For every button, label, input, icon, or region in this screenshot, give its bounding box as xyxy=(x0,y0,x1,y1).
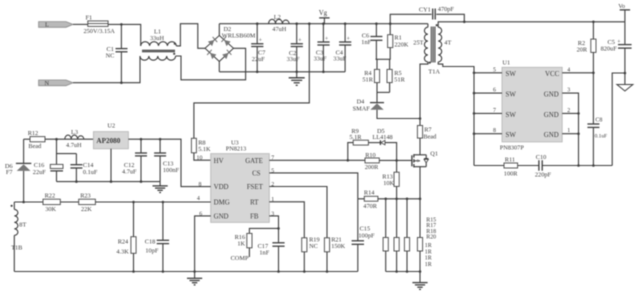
wire T1A secondary bottom to SW bus xyxy=(438,62,474,166)
svg-text:2: 2 xyxy=(567,108,570,114)
capacitor C15 xyxy=(352,199,375,272)
resistor R5 xyxy=(387,59,406,92)
wire Vg rail xyxy=(219,23,428,25)
svg-text:1K: 1K xyxy=(237,240,245,247)
svg-text:Bead: Bead xyxy=(423,133,437,140)
wire U2 bottom lead xyxy=(110,149,112,182)
svg-text:GND: GND xyxy=(544,92,559,99)
svg-text:5: 5 xyxy=(271,168,274,174)
svg-text:SW: SW xyxy=(506,132,517,139)
wire SW pin 6 xyxy=(474,92,502,94)
svg-text:FB: FB xyxy=(250,214,259,221)
wire R8 to HV pin xyxy=(194,153,211,160)
svg-text:250V/3.15A: 250V/3.15A xyxy=(84,28,116,35)
resistor R14 xyxy=(363,190,378,210)
wire main bottom rail xyxy=(14,271,358,273)
ground symbol (U3 GND) xyxy=(187,272,202,285)
svg-text:R14: R14 xyxy=(364,190,375,197)
capacitor C1 xyxy=(106,24,128,82)
transistor Q1 xyxy=(412,150,438,167)
wire SW pin 5 xyxy=(474,72,502,74)
node COMP xyxy=(231,248,250,262)
svg-text:F1: F1 xyxy=(86,15,93,22)
svg-text:1R: 1R xyxy=(425,249,432,255)
svg-text:COMP: COMP xyxy=(231,255,249,262)
resistor R22 xyxy=(43,193,60,214)
svg-text:8: 8 xyxy=(493,128,496,134)
wire Q1 source down to sense row xyxy=(419,167,421,199)
svg-text:SW: SW xyxy=(506,71,517,78)
wire R7 to Q1 drain xyxy=(419,138,421,155)
svg-text:C18: C18 xyxy=(145,238,156,245)
svg-text:4.3K: 4.3K xyxy=(116,249,129,256)
svg-text:820uF: 820uF xyxy=(601,46,618,53)
svg-text:1: 1 xyxy=(567,128,570,134)
wire SW pin 8 xyxy=(474,133,502,135)
svg-text:R10: R10 xyxy=(365,152,376,159)
svg-text:Bead: Bead xyxy=(28,143,42,150)
svg-text:L3: L3 xyxy=(71,129,78,136)
svg-text:C10: C10 xyxy=(536,154,547,161)
svg-text:RT: RT xyxy=(250,199,259,206)
wire F1 to L1 top xyxy=(108,24,141,46)
wire L1 bottom to bridge right (AC2) xyxy=(176,48,246,80)
svg-text:T1A: T1A xyxy=(428,68,440,75)
wire CS net xyxy=(269,173,358,199)
op-amp U1 PN8307P xyxy=(500,60,563,152)
diode D5 LL4148 xyxy=(372,128,392,145)
svg-text:10pF: 10pF xyxy=(145,247,158,254)
wire FSET net xyxy=(269,187,327,238)
svg-text:0.1uF: 0.1uF xyxy=(595,133,607,139)
svg-text:200R: 200R xyxy=(365,164,379,171)
svg-text:1R: 1R xyxy=(425,243,432,249)
svg-text:LL4148: LL4148 xyxy=(372,134,392,141)
resistor R2 xyxy=(577,22,596,73)
svg-text:CS: CS xyxy=(252,171,261,178)
resistor R7 xyxy=(417,126,437,141)
wire L terminal to F1 xyxy=(73,23,88,25)
wire T1B bottom lead xyxy=(13,235,15,271)
svg-text:GND: GND xyxy=(544,112,559,119)
svg-text:4.7uH: 4.7uH xyxy=(66,142,82,149)
wire HV feed (rail to R8) xyxy=(194,24,309,139)
svg-text:22uF: 22uF xyxy=(252,56,265,63)
resistor R8 xyxy=(191,138,211,153)
svg-text:L2: L2 xyxy=(274,14,281,21)
svg-text:51R: 51R xyxy=(394,76,405,83)
ground symbol (U2 rail) xyxy=(153,182,168,193)
wire C16 C14 tap xyxy=(57,139,77,153)
resistor R11 xyxy=(504,157,518,178)
svg-text:NC: NC xyxy=(309,243,318,250)
svg-text:R24: R24 xyxy=(118,238,129,245)
wire RT net xyxy=(269,202,304,238)
wire D5 to gate node xyxy=(385,143,397,161)
svg-text:2: 2 xyxy=(271,182,274,188)
wire T1A primary bottom to R7 (switch node) xyxy=(420,62,428,126)
transformer T1A xyxy=(413,24,451,75)
svg-text:100nF: 100nF xyxy=(163,167,180,174)
svg-text:8T: 8T xyxy=(19,222,26,229)
svg-text:WRLSB60M: WRLSB60M xyxy=(222,33,256,40)
svg-text:GND: GND xyxy=(544,132,559,139)
svg-text:33uF: 33uF xyxy=(287,56,300,63)
svg-text:R20: R20 xyxy=(426,235,436,241)
svg-text:4: 4 xyxy=(567,67,570,73)
wire GATE riser to R9 row xyxy=(348,143,353,161)
resistor R16 xyxy=(235,233,252,247)
svg-text:DMG: DMG xyxy=(214,199,230,206)
svg-text:25T: 25T xyxy=(413,39,423,46)
svg-text:7: 7 xyxy=(493,108,496,114)
wire sense bottom rail xyxy=(386,271,420,273)
wire bridge top to Vg rail xyxy=(218,24,220,36)
capacitor C7 xyxy=(251,22,265,73)
svg-text:22uF: 22uF xyxy=(33,169,46,176)
wire clamp bottom row xyxy=(377,91,390,93)
inductor L1 common-mode choke xyxy=(140,29,176,61)
wire FB net xyxy=(269,216,278,243)
svg-text:3: 3 xyxy=(567,88,570,94)
svg-text:AP2080: AP2080 xyxy=(96,137,120,145)
wire FB to R16 xyxy=(249,228,278,233)
wire R12 to L3 to U2 xyxy=(45,138,93,140)
wire snubber ground row xyxy=(474,165,612,167)
resistor R10 xyxy=(365,152,380,171)
capacitor C14 xyxy=(70,154,98,182)
resistor R18 xyxy=(404,199,409,272)
svg-text:100R: 100R xyxy=(504,171,518,178)
svg-text:Vo: Vo xyxy=(618,3,625,10)
wire U2 output to VDD xyxy=(128,139,210,186)
svg-text:10: 10 xyxy=(197,156,203,162)
svg-text:HV: HV xyxy=(214,158,224,165)
capacitor C18 xyxy=(145,201,169,272)
diode D6 F7 xyxy=(5,139,31,203)
wire L1 top to bridge left (AC1) xyxy=(176,24,205,49)
capacitor C2 xyxy=(287,22,303,73)
capacitor C4 xyxy=(333,22,351,71)
capacitor C3 xyxy=(314,22,330,73)
resistor R1 xyxy=(388,22,409,59)
svg-text:R22: R22 xyxy=(45,193,56,200)
svg-text:4T: 4T xyxy=(444,39,451,46)
wire U2 ground rail xyxy=(57,181,161,183)
svg-text:4: 4 xyxy=(197,196,200,202)
svg-text:22K: 22K xyxy=(81,206,92,213)
svg-text:30K: 30K xyxy=(45,206,56,213)
bridge rectifier D2 WRLSB60M xyxy=(205,26,256,61)
svg-text:F7: F7 xyxy=(6,169,13,176)
wire DMG net row xyxy=(14,201,210,203)
svg-text:PN8213: PN8213 xyxy=(226,145,247,152)
wire primary ground bus xyxy=(219,71,345,73)
capacitor C17 xyxy=(258,243,285,272)
svg-text:T1B: T1B xyxy=(11,245,22,252)
wire secondary top row xyxy=(438,22,625,27)
svg-text:Vg: Vg xyxy=(319,10,328,17)
resistor R9 xyxy=(349,128,368,145)
svg-text:U1: U1 xyxy=(502,60,510,67)
terminal L xyxy=(39,22,73,29)
op-amp U3 PN8213 xyxy=(211,139,270,222)
wire clamp top row xyxy=(376,58,391,60)
fuse F1 xyxy=(84,15,116,36)
svg-text:VDD: VDD xyxy=(214,184,229,191)
capacitor C8 xyxy=(587,73,607,166)
svg-text:GATE: GATE xyxy=(245,158,263,165)
svg-text:5.1R: 5.1R xyxy=(349,134,362,141)
svg-text:L: L xyxy=(45,22,49,29)
resistor R15 xyxy=(383,199,388,272)
svg-text:4.7uF: 4.7uF xyxy=(122,168,137,175)
transformer T1B xyxy=(11,205,27,252)
svg-text:U2: U2 xyxy=(107,123,115,130)
resistor R4 xyxy=(362,59,379,92)
svg-text:47uH: 47uH xyxy=(272,26,286,33)
svg-text:GND: GND xyxy=(214,214,229,221)
svg-text:D4: D4 xyxy=(357,98,366,105)
svg-text:470R: 470R xyxy=(363,203,377,210)
svg-text:C15: C15 xyxy=(360,226,371,233)
svg-text:VCC: VCC xyxy=(545,71,560,78)
svg-text:CY1: CY1 xyxy=(419,7,431,14)
capacitor C10 xyxy=(535,154,552,178)
wire GATE net xyxy=(269,159,365,161)
wire VCC pin 4 xyxy=(562,72,593,74)
wire Vg rail to T1A primary top xyxy=(427,24,429,28)
wire secondary return xyxy=(612,73,625,166)
wire GND pin 1 xyxy=(562,133,578,135)
svg-text:100pF: 100pF xyxy=(358,233,375,240)
svg-text:R23: R23 xyxy=(80,193,91,200)
resistor R13 xyxy=(382,160,399,198)
resistor R24 xyxy=(116,201,136,272)
ground symbol (sense rail) xyxy=(412,272,427,290)
diode D4 SMAF xyxy=(353,92,420,118)
inductor L2 xyxy=(269,14,290,33)
svg-text:1nF: 1nF xyxy=(259,250,269,257)
svg-text:Q1: Q1 xyxy=(430,150,438,157)
wire T1B top lead xyxy=(13,202,15,209)
svg-text:33uF: 33uF xyxy=(314,56,327,63)
capacitor C13 xyxy=(154,138,179,182)
wire R9 to D5 xyxy=(368,142,380,144)
resistor R23 xyxy=(79,193,96,214)
svg-text:C8: C8 xyxy=(595,118,602,124)
svg-text:N: N xyxy=(45,80,50,87)
svg-text:8: 8 xyxy=(199,182,202,188)
label sense resistor designators xyxy=(425,218,436,268)
svg-text:220K: 220K xyxy=(394,41,408,48)
resistor R19 xyxy=(302,237,320,272)
svg-text:5.1K: 5.1K xyxy=(198,146,211,153)
wire bridge bottom to ground bus xyxy=(218,61,220,71)
ground symbol (primary bus) xyxy=(289,72,305,86)
op-amp U2 AP2080 xyxy=(93,123,128,149)
node C1 bottom junction xyxy=(120,81,123,84)
resistor R17 xyxy=(394,199,399,272)
node C1 top junction xyxy=(120,23,123,26)
svg-text:0.1uF: 0.1uF xyxy=(83,169,98,176)
svg-text:5: 5 xyxy=(493,67,496,73)
capacitor CY1 xyxy=(390,6,464,24)
resistor R21 xyxy=(324,237,345,272)
svg-text:SW: SW xyxy=(506,112,517,119)
svg-text:1nF: 1nF xyxy=(361,39,371,46)
power return symbol (output) xyxy=(617,73,633,91)
inductor L3 xyxy=(65,129,84,149)
svg-text:1R: 1R xyxy=(425,262,432,268)
resistor R12 xyxy=(24,130,45,150)
terminal N xyxy=(39,80,73,87)
wire N terminal to L1 bottom xyxy=(73,56,140,83)
wire R10 to Q1 gate xyxy=(379,159,412,161)
svg-text:1: 1 xyxy=(271,197,274,203)
svg-text:PN8307P: PN8307P xyxy=(500,144,525,151)
wire GND pin 2 xyxy=(562,112,578,114)
wire SW pin 7 xyxy=(474,112,502,114)
wire GND pin 3 xyxy=(562,93,578,165)
svg-text:1R: 1R xyxy=(425,256,432,262)
svg-text:R12: R12 xyxy=(28,130,39,137)
wire sense top row xyxy=(358,198,420,200)
capacitor C16 xyxy=(33,154,63,182)
svg-text:33uF: 33uF xyxy=(333,56,346,63)
svg-text:6: 6 xyxy=(493,88,496,94)
svg-text:R11: R11 xyxy=(505,157,515,164)
svg-text:20R: 20R xyxy=(577,47,588,54)
wire U3 GND pin 6 to ground xyxy=(195,216,211,272)
svg-text:NC: NC xyxy=(106,53,115,60)
resistor R20 xyxy=(417,199,422,272)
svg-text:3: 3 xyxy=(271,211,274,217)
svg-text:7: 7 xyxy=(271,156,274,162)
svg-text:FSET: FSET xyxy=(247,184,264,191)
supply symbol Vo xyxy=(618,3,630,22)
svg-text:33uH: 33uH xyxy=(150,35,164,42)
capacitor C5 xyxy=(601,22,632,73)
supply symbol Vg xyxy=(319,10,330,24)
svg-text:150K: 150K xyxy=(331,243,345,250)
capacitor C6 xyxy=(361,22,382,59)
svg-text:10K: 10K xyxy=(383,180,394,187)
capacitor C12 xyxy=(122,138,147,183)
svg-text:51R: 51R xyxy=(362,76,373,83)
svg-text:SMAF: SMAF xyxy=(353,105,371,112)
svg-text:SW: SW xyxy=(506,92,517,99)
svg-text:470pF: 470pF xyxy=(438,6,455,13)
svg-text:6: 6 xyxy=(199,211,202,217)
svg-text:220pF: 220pF xyxy=(535,172,552,179)
